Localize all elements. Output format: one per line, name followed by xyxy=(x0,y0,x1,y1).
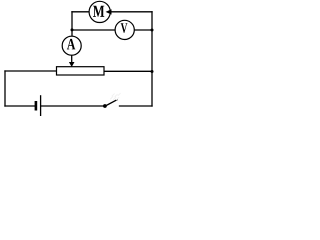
battery: short thick negative plate xyxy=(35,101,38,111)
wire voltmeter row left xyxy=(72,29,115,31)
junction node (rheostat right / right rail) xyxy=(151,70,154,73)
rheostat R: resistor body xyxy=(57,67,105,75)
wire bottom rail left (to battery) xyxy=(5,105,35,107)
voltmeter V: circle with V xyxy=(115,20,134,39)
faint artifact mark xyxy=(111,93,121,99)
wire rheostat row left xyxy=(5,70,57,72)
junction node (voltmeter tap left) xyxy=(71,28,74,31)
wire right vertical xyxy=(151,12,153,106)
motor U: circle with M xyxy=(89,1,110,22)
current arrow into motor xyxy=(106,9,112,14)
wire switch to bottom-right corner xyxy=(120,105,153,107)
wire top horizontal to motor xyxy=(72,11,89,13)
switch S: pivot dot xyxy=(103,104,107,108)
wire left vertical xyxy=(4,71,6,106)
junction node (voltmeter tap right) xyxy=(151,29,154,32)
rheostat R: slider arrow xyxy=(69,62,75,67)
wire motor right to top-right corner xyxy=(110,11,152,13)
wire battery to switch xyxy=(41,105,103,107)
switch S: lever xyxy=(105,99,117,106)
wire voltmeter row right xyxy=(134,29,152,31)
battery: long thin positive plate xyxy=(40,95,42,116)
wire rheostat row right xyxy=(104,70,152,72)
wire top-left vertical (node to ammeter) xyxy=(71,12,73,37)
ammeter A: circle with A xyxy=(62,36,81,55)
wire ammeter bottom to slider xyxy=(71,55,73,62)
